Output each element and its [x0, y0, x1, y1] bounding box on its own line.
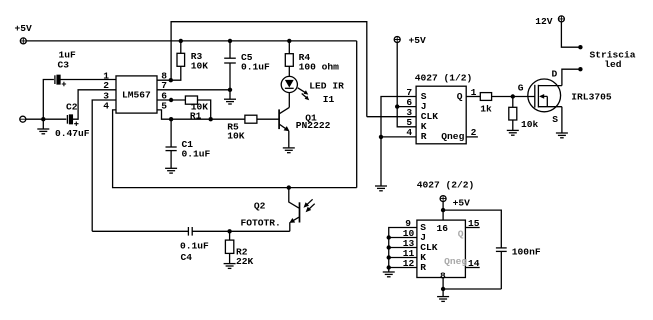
svg-text:12V: 12V [535, 16, 553, 27]
wire drain up to terminal [562, 69, 581, 85]
capacitor C2 [55, 102, 90, 140]
svg-text:0.47uF: 0.47uF [55, 128, 90, 139]
wire C2 to pin2 [72, 90, 116, 119]
wire Q output pin 1 [466, 96, 480, 98]
svg-text:I1: I1 [323, 94, 335, 105]
flip-flop U2 4027 (1/2) [416, 86, 466, 144]
wire C3 branch [43, 80, 54, 120]
node tie K [387, 255, 391, 259]
node S/R junction [379, 135, 383, 139]
wire rail drop to Vcc line [356, 41, 358, 188]
svg-text:D: D [552, 69, 558, 80]
wire pin7 to C5 [157, 89, 230, 91]
capacitor C1 [166, 119, 211, 168]
svg-text:+5V: +5V [15, 23, 33, 34]
wire pin3 line to C4 left plate [92, 230, 188, 232]
ground Q1 emitter [283, 148, 295, 153]
svg-text:S: S [552, 114, 558, 125]
12V supply terminal [535, 16, 564, 27]
ground source [556, 133, 568, 138]
capacitor C5 [224, 41, 270, 90]
wire +5V to pin16 [442, 202, 444, 221]
+5V supply at 4027 (1/2) [394, 35, 426, 46]
svg-text:0.1uF: 0.1uF [182, 149, 211, 160]
wire input tie CLK [389, 247, 417, 249]
svg-text:5: 5 [161, 100, 167, 111]
resistor R3 [177, 41, 208, 72]
wire R5 to Q1 base [257, 118, 279, 120]
svg-text:0.1uF: 0.1uF [180, 241, 209, 252]
node pin5 junction [169, 117, 173, 121]
transistor U3 IRL3705 MOSFET [528, 69, 612, 125]
capacitor C3 [55, 50, 76, 87]
input terminal (0V) [20, 116, 26, 122]
resistor 1k [480, 93, 492, 115]
svg-text:4: 4 [103, 100, 109, 111]
node R3 rail junction [179, 39, 183, 43]
resistor R5 [227, 115, 257, 141]
svg-text:Qneg: Qneg [441, 131, 464, 142]
svg-text:0.1uF: 0.1uF [241, 62, 270, 73]
wire input line [26, 118, 67, 120]
transistor Q1 PN2222 [279, 107, 330, 147]
wire K pin [397, 107, 416, 127]
svg-text:4027 (1/2): 4027 (1/2) [415, 73, 473, 84]
wire source down [561, 107, 563, 133]
wire pin4 Vcc line [113, 110, 357, 188]
ground R2 [224, 264, 236, 269]
node tie R [387, 265, 391, 269]
svg-text:16: 16 [437, 223, 449, 234]
wire LM567 pin8 to 4027 CLK top link [171, 22, 367, 117]
svg-text:LED IR: LED IR [309, 81, 344, 92]
svg-text:10k: 10k [521, 119, 539, 130]
label Striscia led [590, 49, 636, 70]
svg-text:R: R [420, 262, 426, 273]
+5V supply terminal [15, 23, 33, 44]
wire J pin to +5V [397, 42, 416, 106]
wire 1k to gate [492, 96, 535, 98]
op-amp U1 LM567 [116, 76, 157, 113]
node R4 rail junction [287, 39, 291, 43]
svg-text:LM567: LM567 [122, 89, 151, 100]
node drain terminal [578, 67, 582, 71]
resistor R2 [225, 231, 253, 267]
node input junction [41, 117, 45, 121]
wire C4 right to R2/Q2 [192, 230, 290, 232]
LED emission arrows [298, 88, 310, 100]
capacitor C4 [180, 227, 209, 263]
svg-text:+5V: +5V [453, 198, 471, 209]
svg-text:10K: 10K [191, 61, 209, 72]
wire pin8 out [157, 66, 181, 80]
Q2 photo arrows [304, 199, 315, 212]
svg-text:G: G [518, 82, 524, 93]
wire +5V rail [26, 40, 357, 42]
wire input tie R [389, 267, 417, 269]
node +5V junction [441, 208, 445, 212]
node J/K junction [395, 104, 399, 108]
svg-text:FOTOTR.: FOTOTR. [241, 218, 281, 229]
svg-text:C3: C3 [58, 60, 70, 71]
node R2 junction [227, 229, 231, 233]
node tie CLK [387, 245, 391, 249]
svg-text:Qneg: Qneg [444, 256, 467, 267]
wire CLK pin [367, 116, 416, 118]
wire input tie K [389, 257, 417, 259]
wire pin3 to C4 [92, 100, 116, 231]
node pin8 junction [169, 78, 173, 82]
svg-text:R: R [421, 131, 427, 142]
wire Qneg stub pin 2 [466, 136, 478, 138]
node Q2 collector junction [287, 185, 291, 189]
wire S pin [381, 97, 416, 137]
node tie J [387, 235, 391, 239]
ground pin7 [224, 90, 236, 104]
transistor Q2 phototransistor [241, 188, 300, 232]
svg-text:1k: 1k [480, 103, 492, 114]
wire +5V to cap [443, 210, 501, 248]
svg-text:led: led [604, 59, 622, 70]
svg-text:C4: C4 [181, 252, 193, 263]
node 12V terminal [578, 45, 582, 49]
resistor 10k [509, 97, 539, 131]
ground S/R [375, 137, 387, 191]
wire pin 15 stub [465, 227, 479, 229]
svg-text:2: 2 [471, 127, 477, 138]
wire 12V to terminal [561, 22, 580, 47]
svg-text:100nF: 100nF [512, 246, 541, 257]
ground 10k [507, 130, 519, 135]
node C5 rail junction [228, 39, 232, 43]
svg-text:Q: Q [457, 91, 463, 102]
svg-text:PN2222: PN2222 [296, 120, 331, 131]
LED IR I1 [281, 76, 344, 107]
ground input [37, 119, 49, 134]
svg-text:Q2: Q2 [254, 200, 266, 211]
resistor R1 [185, 96, 210, 121]
+5V supply at 4027 (2/2) [440, 196, 470, 209]
node pin7 junction [228, 88, 232, 92]
svg-text:Q: Q [458, 229, 464, 240]
ground input tie [383, 272, 395, 277]
svg-text:10K: 10K [227, 130, 245, 141]
wire pin5 net [157, 110, 245, 119]
svg-text:IRL3705: IRL3705 [571, 92, 612, 103]
node G junction [511, 94, 515, 98]
ground pin8 [437, 289, 449, 301]
capacitor 100nF [496, 246, 541, 289]
wire pin6 [157, 99, 185, 101]
wire input tie S [389, 228, 417, 272]
wire C3 to pin1 [60, 79, 116, 81]
node pin8 junction [441, 287, 445, 291]
svg-text:100 ohm: 100 ohm [299, 62, 340, 73]
svg-text:14: 14 [468, 258, 480, 269]
wire pin 8 ground net [443, 278, 501, 290]
wire input tie J [389, 237, 417, 239]
svg-text:C2: C2 [66, 102, 78, 113]
svg-text:4027 (2/2): 4027 (2/2) [417, 180, 475, 191]
node R1 bottom junction [209, 117, 213, 121]
svg-text:+5V: +5V [409, 35, 427, 46]
svg-text:22K: 22K [236, 256, 254, 267]
node pin6 junction [169, 98, 173, 102]
ground C1 [165, 168, 177, 173]
flip-flop U4 4027 (2/2) [417, 220, 466, 277]
wire pin 14 stub [465, 267, 479, 269]
resistor R4 [285, 41, 339, 77]
svg-text:1: 1 [471, 87, 477, 98]
wire R pin [381, 136, 416, 138]
svg-text:15: 15 [468, 218, 480, 229]
